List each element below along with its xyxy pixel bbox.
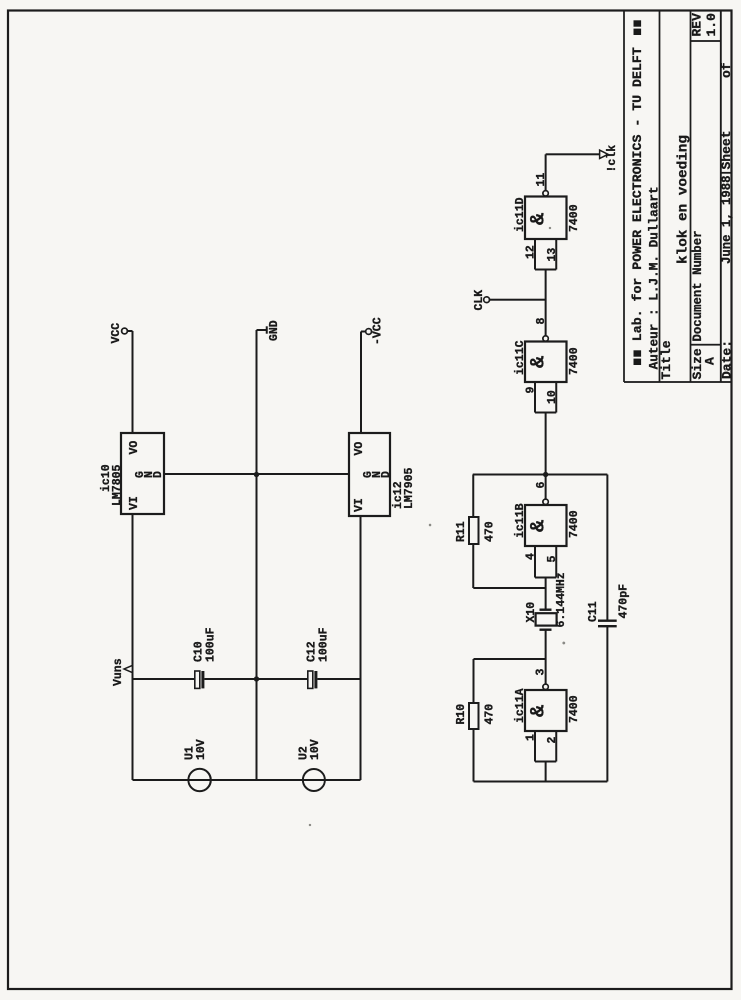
svg-text:ic11C: ic11C bbox=[514, 340, 527, 375]
svg-text:100uF: 100uF bbox=[205, 627, 218, 662]
svg-text:VCC: VCC bbox=[110, 323, 123, 344]
svg-text:&: & bbox=[528, 520, 551, 532]
svg-text:D: D bbox=[152, 471, 165, 478]
svg-text:13: 13 bbox=[546, 248, 559, 262]
svg-text:VO: VO bbox=[353, 442, 366, 456]
svg-text:7400: 7400 bbox=[568, 695, 581, 723]
svg-text:9: 9 bbox=[525, 387, 538, 394]
svg-text:X10: X10 bbox=[525, 602, 538, 623]
svg-text:&: & bbox=[528, 705, 551, 717]
svg-text:&: & bbox=[528, 213, 551, 225]
svg-text:LM7905: LM7905 bbox=[403, 467, 416, 509]
svg-text:-VCC: -VCC bbox=[372, 317, 385, 345]
svg-text:VI: VI bbox=[353, 498, 366, 512]
svg-text:Vuns: Vuns bbox=[112, 658, 125, 686]
svg-text:11: 11 bbox=[535, 173, 548, 187]
svg-text:Sheet: Sheet bbox=[719, 130, 734, 169]
svg-text:June 1, 1988: June 1, 1988 bbox=[719, 175, 734, 264]
svg-text:8: 8 bbox=[535, 318, 548, 325]
svg-text:R11: R11 bbox=[455, 521, 468, 542]
svg-text:12: 12 bbox=[525, 245, 538, 259]
svg-text:ic11D: ic11D bbox=[514, 197, 527, 232]
svg-text:ic11B: ic11B bbox=[514, 503, 527, 538]
svg-text:7400: 7400 bbox=[568, 510, 581, 538]
svg-text:6: 6 bbox=[535, 482, 548, 489]
svg-text:R10: R10 bbox=[455, 704, 468, 725]
svg-text:&: & bbox=[528, 356, 551, 368]
svg-text:Document Number: Document Number bbox=[690, 231, 705, 342]
svg-text:Lab. for POWER ELECTRONICS - T: Lab. for POWER ELECTRONICS - TU DELFT bbox=[630, 47, 645, 341]
svg-text:7400: 7400 bbox=[568, 204, 581, 232]
svg-text:LM7805: LM7805 bbox=[111, 464, 124, 506]
svg-text:CLK: CLK bbox=[473, 290, 486, 311]
svg-text:100uF: 100uF bbox=[318, 627, 331, 662]
svg-text:7400: 7400 bbox=[568, 347, 581, 375]
svg-text:470: 470 bbox=[484, 704, 497, 725]
svg-text:6.144MHz: 6.144MHz bbox=[555, 572, 568, 627]
svg-text:Date:: Date: bbox=[720, 340, 735, 379]
svg-text:4: 4 bbox=[525, 553, 538, 560]
svg-text:10V: 10V bbox=[195, 739, 208, 760]
svg-text:GND: GND bbox=[268, 320, 281, 341]
svg-text:C11: C11 bbox=[587, 601, 600, 622]
svg-text:D: D bbox=[380, 471, 393, 478]
svg-text:10: 10 bbox=[546, 390, 559, 404]
svg-text:A: A bbox=[703, 357, 718, 365]
svg-text:REV: REV bbox=[690, 13, 705, 37]
svg-text:of: of bbox=[719, 62, 734, 78]
svg-text:!clk: !clk bbox=[606, 145, 619, 173]
svg-text:VI: VI bbox=[128, 496, 141, 510]
svg-text:470pF: 470pF bbox=[618, 584, 631, 619]
svg-text:3: 3 bbox=[535, 669, 548, 676]
svg-text:1: 1 bbox=[525, 734, 538, 741]
svg-text:1.0: 1.0 bbox=[704, 13, 719, 37]
svg-text:VO: VO bbox=[128, 441, 141, 455]
svg-text:5: 5 bbox=[546, 556, 559, 563]
svg-text:10V: 10V bbox=[309, 739, 322, 760]
svg-text:Title: Title bbox=[659, 340, 674, 379]
svg-text:2: 2 bbox=[546, 737, 559, 744]
svg-text:ic11A: ic11A bbox=[514, 688, 527, 723]
svg-text:470: 470 bbox=[484, 521, 497, 542]
